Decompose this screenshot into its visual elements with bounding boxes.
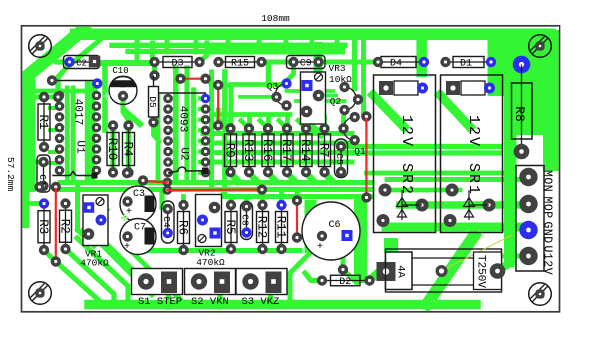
trimpot VR1 [83, 195, 108, 246]
svg-text:C2: C2 [76, 59, 87, 69]
jumper red J6b [167, 189, 262, 192]
resistor R5 [230, 205, 232, 249]
capacitor C1 [43, 162, 45, 186]
jumper red J2 [217, 85, 219, 126]
svg-text:470kΩ: 470kΩ [196, 257, 225, 268]
svg-text:C10: C10 [112, 66, 128, 76]
resistor R16 [267, 129, 269, 173]
capacitor C4 [167, 209, 169, 233]
svg-text:C9: C9 [300, 59, 312, 70]
diode D3 [155, 61, 200, 63]
svg-text:VR3: VR3 [329, 63, 346, 74]
svg-text:108mm: 108mm [261, 13, 290, 24]
svg-text:Q2: Q2 [330, 96, 342, 107]
wires: bottom-left diagonals [56, 262, 99, 301]
resistor R17 [286, 129, 288, 173]
capacitor C9 [294, 61, 319, 63]
capacitor C3 [120, 186, 156, 222]
capacitor C8 [246, 207, 248, 233]
board outline [22, 26, 560, 312]
wires: C6/D2 nets [305, 200, 317, 253]
svg-text:12V: 12V [465, 115, 482, 148]
svg-text:D2: D2 [339, 277, 351, 288]
trimpot VR3 [301, 72, 326, 124]
C10 positive lead mark [104, 95, 110, 97]
mounting hole bottom-right [529, 283, 552, 306]
svg-text:R14: R14 [298, 139, 312, 162]
svg-text:C3: C3 [133, 189, 145, 200]
svg-text:GND: GND [541, 222, 554, 244]
svg-text:D3: D3 [171, 59, 183, 70]
svg-text:C6: C6 [328, 220, 340, 231]
resistor R2 [65, 204, 67, 250]
svg-text:MON: MON [541, 170, 554, 192]
wire: bottom ground rail [89, 300, 476, 310]
pad J3 bottom [51, 256, 61, 266]
trimpot VR2 [196, 195, 222, 247]
wire: corner diagonal to left edge [20, 29, 84, 82]
svg-text:470kΩ: 470kΩ [80, 258, 109, 269]
wires: fuse nets [427, 236, 474, 304]
wire link W1 [52, 81, 97, 84]
svg-text:SR1: SR1 [465, 163, 482, 196]
wire: left edge rail [22, 78, 35, 192]
svg-text:S1 STEP: S1 STEP [138, 296, 182, 308]
svg-text:R10: R10 [105, 138, 119, 161]
resistor R12 [262, 205, 264, 249]
resistor R6 [183, 205, 185, 250]
capacitor C10 [113, 76, 134, 81]
svg-text:10kΩ: 10kΩ [329, 74, 352, 85]
svg-text:Q1: Q1 [354, 146, 366, 157]
capacitor C5 [340, 147, 342, 173]
svg-text:R17: R17 [279, 139, 293, 162]
IC U1 pads [55, 91, 65, 101]
switch S2 [185, 269, 236, 295]
svg-text:Q3: Q3 [267, 81, 279, 92]
relay SR1 [441, 75, 503, 233]
jumper red J3 [55, 189, 57, 262]
svg-text:+: + [124, 242, 130, 253]
wires: U1 bus strips [65, 88, 70, 180]
corner notch [556, 27, 559, 30]
copper pour: right region [368, 29, 559, 40]
svg-text:R9: R9 [222, 143, 236, 158]
svg-text:R16: R16 [260, 139, 274, 162]
pad J5 bottom [361, 192, 371, 202]
svg-text:R4: R4 [120, 141, 134, 156]
pad J2 bottom [213, 120, 223, 130]
svg-text:12V: 12V [398, 115, 415, 148]
wires: resistor row top stubs [228, 117, 233, 129]
svg-text:R5: R5 [223, 219, 237, 234]
wires: resistor row bus [203, 131, 352, 136]
transistor Q2 [345, 87, 357, 110]
svg-text:R15: R15 [231, 59, 249, 70]
wire: top supply bus [70, 29, 559, 41]
resistor R1 [43, 97, 45, 147]
jumper red J5 [365, 119, 367, 198]
diode D5 [153, 76, 155, 123]
wire link W4 [168, 167, 202, 173]
svg-text:+: + [317, 242, 323, 253]
pad node A [149, 70, 159, 80]
capacitor C7 [120, 219, 156, 255]
svg-text:C8: C8 [240, 214, 251, 226]
relay SR2 [374, 75, 436, 233]
wire: C10 branch [102, 66, 108, 130]
svg-text:R2: R2 [57, 219, 71, 234]
pad row left b [34, 182, 44, 192]
svg-text:R3: R3 [36, 219, 50, 234]
IC U2 pads [163, 94, 173, 104]
svg-text:U12V: U12V [541, 246, 554, 276]
svg-text:S2 VKN: S2 VKN [191, 296, 229, 308]
pad row left a [39, 92, 49, 102]
svg-text:SR2: SR2 [398, 163, 415, 196]
svg-text:4A: 4A [395, 265, 407, 278]
resistor R13 [248, 129, 250, 173]
jumper red J6a [143, 181, 167, 182]
wires: switch stems [166, 289, 171, 307]
svg-text:MOP: MOP [541, 197, 554, 219]
wires: Q1-Q3 links [240, 95, 277, 99]
wire: C2 to D3 net [94, 60, 155, 66]
jumper red J1 [181, 78, 206, 80]
mounting hole top-left [29, 35, 52, 58]
svg-text:C5: C5 [334, 153, 345, 165]
wires: relay nets [344, 144, 500, 149]
svg-text:57.2mm: 57.2mm [5, 157, 16, 192]
diode D2 [322, 280, 370, 282]
svg-text:4093: 4093 [177, 106, 189, 132]
capacitor C6 [302, 202, 360, 260]
svg-text:R8: R8 [512, 106, 527, 122]
wires: U1 left links [28, 89, 95, 94]
svg-text:R7: R7 [316, 143, 330, 158]
resistor R7 [324, 129, 326, 173]
svg-text:U1: U1 [74, 140, 86, 154]
resistor R15 [219, 61, 262, 63]
pad J2 top [213, 80, 223, 90]
resistor R9 [230, 129, 232, 173]
wires: U2 bus strips [173, 68, 179, 180]
svg-text:D1: D1 [460, 59, 472, 70]
pad J1 right [200, 74, 210, 84]
pad J6a left [138, 175, 148, 185]
node V+ big blue pad [513, 56, 531, 74]
mounting hole bottom-left [29, 282, 52, 305]
resistor R3 [43, 204, 45, 251]
pad C6 drain [338, 264, 348, 274]
wire: horizontal bus under top band [112, 43, 345, 48]
diode D1 [446, 61, 492, 63]
wire link W3 [53, 172, 93, 176]
wires: mid horizontal bus [60, 180, 372, 185]
svg-text:4017: 4017 [72, 99, 84, 125]
resistor R14 [305, 129, 307, 173]
mounting hole top-right [529, 35, 552, 58]
pad J6b right [257, 184, 267, 194]
svg-text:D4: D4 [390, 59, 402, 70]
svg-text:R12: R12 [254, 216, 268, 239]
capacitor C2 [70, 61, 94, 63]
svg-text:S3 VKZ: S3 VKZ [242, 296, 280, 308]
pad Q1 base node [338, 123, 348, 133]
C3 positive lead mark [122, 217, 128, 219]
resistor R8 [521, 65, 523, 152]
svg-text:T250V: T250V [475, 255, 487, 288]
diode D4 [378, 61, 424, 63]
resistor R4 [128, 126, 130, 173]
svg-text:D5: D5 [147, 96, 158, 108]
pad J4 bottom [292, 232, 302, 242]
svg-text:R11: R11 [273, 216, 287, 239]
switch S1 [132, 269, 183, 295]
pad J1 left [175, 74, 185, 84]
svg-text:C4: C4 [161, 216, 172, 228]
svg-text:U2: U2 [178, 147, 190, 160]
pad W1 left [47, 75, 57, 85]
resistor R11 [281, 205, 283, 249]
terminal block K1 [516, 166, 544, 272]
wire: bottom components rail [132, 248, 300, 253]
svg-text:+: + [126, 207, 132, 218]
pad R4 bottom extra [122, 168, 132, 178]
transistor Q3 [275, 84, 286, 106]
pad J4 top [292, 195, 302, 205]
fuse F1 [386, 249, 502, 292]
svg-text:R6: R6 [175, 220, 189, 235]
svg-text:R1: R1 [36, 114, 50, 129]
switch S3 [236, 269, 287, 295]
svg-text:R13: R13 [241, 139, 255, 162]
jumper red J4 [296, 202, 298, 237]
svg-text:C7: C7 [134, 223, 146, 234]
wire link W2 [157, 93, 206, 95]
via W1 right (blue) [92, 78, 102, 88]
resistor R10 [112, 126, 114, 173]
transistor Q1 [343, 117, 355, 140]
